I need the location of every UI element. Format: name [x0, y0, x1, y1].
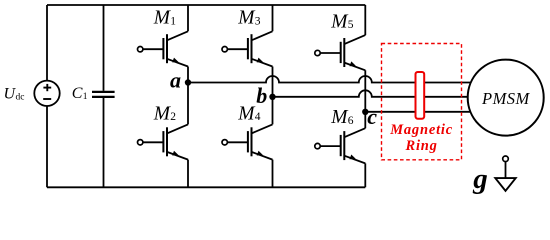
svg-text:1: 1 [170, 15, 176, 27]
svg-text:PMSM: PMSM [481, 89, 531, 108]
svg-text:dc: dc [16, 93, 25, 103]
svg-text:1: 1 [83, 92, 88, 102]
svg-text:c: c [367, 104, 377, 129]
svg-text:5: 5 [348, 19, 354, 31]
svg-text:M: M [330, 107, 349, 128]
svg-text:C: C [72, 85, 83, 102]
svg-text:3: 3 [255, 15, 261, 27]
svg-text:M: M [153, 8, 172, 29]
svg-text:Magnetic: Magnetic [389, 122, 453, 138]
svg-text:6: 6 [348, 115, 354, 127]
svg-text:M: M [153, 103, 172, 124]
svg-text:M: M [237, 103, 256, 124]
svg-text:Ring: Ring [404, 138, 437, 154]
svg-text:M: M [330, 12, 349, 33]
svg-text:g: g [472, 163, 488, 195]
svg-text:a: a [170, 68, 181, 93]
svg-text:b: b [256, 83, 267, 108]
svg-text:4: 4 [255, 111, 261, 123]
svg-text:2: 2 [170, 111, 176, 123]
svg-text:M: M [237, 8, 256, 29]
